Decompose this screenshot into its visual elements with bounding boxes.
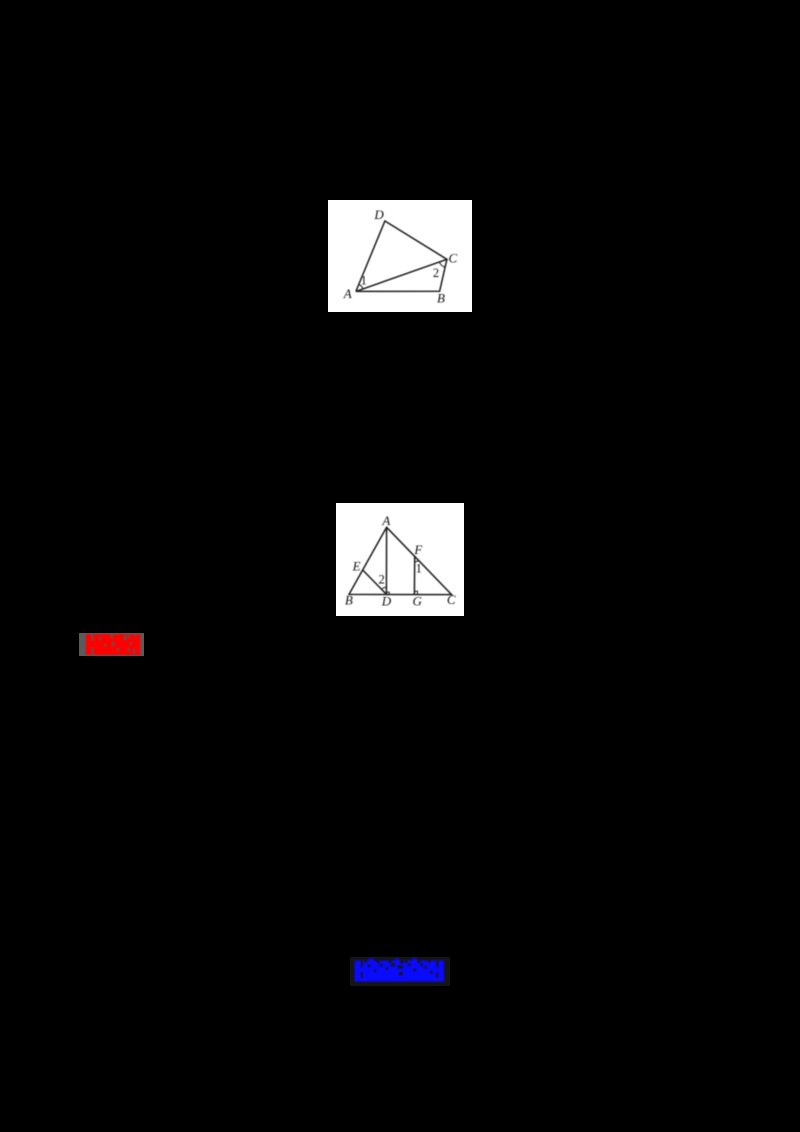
- svg-text:D: D: [373, 207, 384, 222]
- svg-text:B: B: [437, 290, 445, 305]
- svg-text:1: 1: [361, 273, 367, 287]
- svg-text:B: B: [345, 593, 353, 608]
- svg-text:2: 2: [378, 573, 384, 587]
- svg-text:A: A: [381, 513, 390, 528]
- svg-text:2: 2: [433, 266, 439, 280]
- svg-text:C: C: [447, 592, 456, 607]
- svg-text:A: A: [343, 286, 352, 301]
- svg-text:C: C: [448, 251, 457, 266]
- svg-text:F: F: [413, 542, 423, 557]
- svg-text:G: G: [413, 594, 423, 609]
- svg-text:1: 1: [416, 562, 422, 576]
- svg-text:D: D: [381, 594, 392, 609]
- svg-text:E: E: [352, 559, 361, 574]
